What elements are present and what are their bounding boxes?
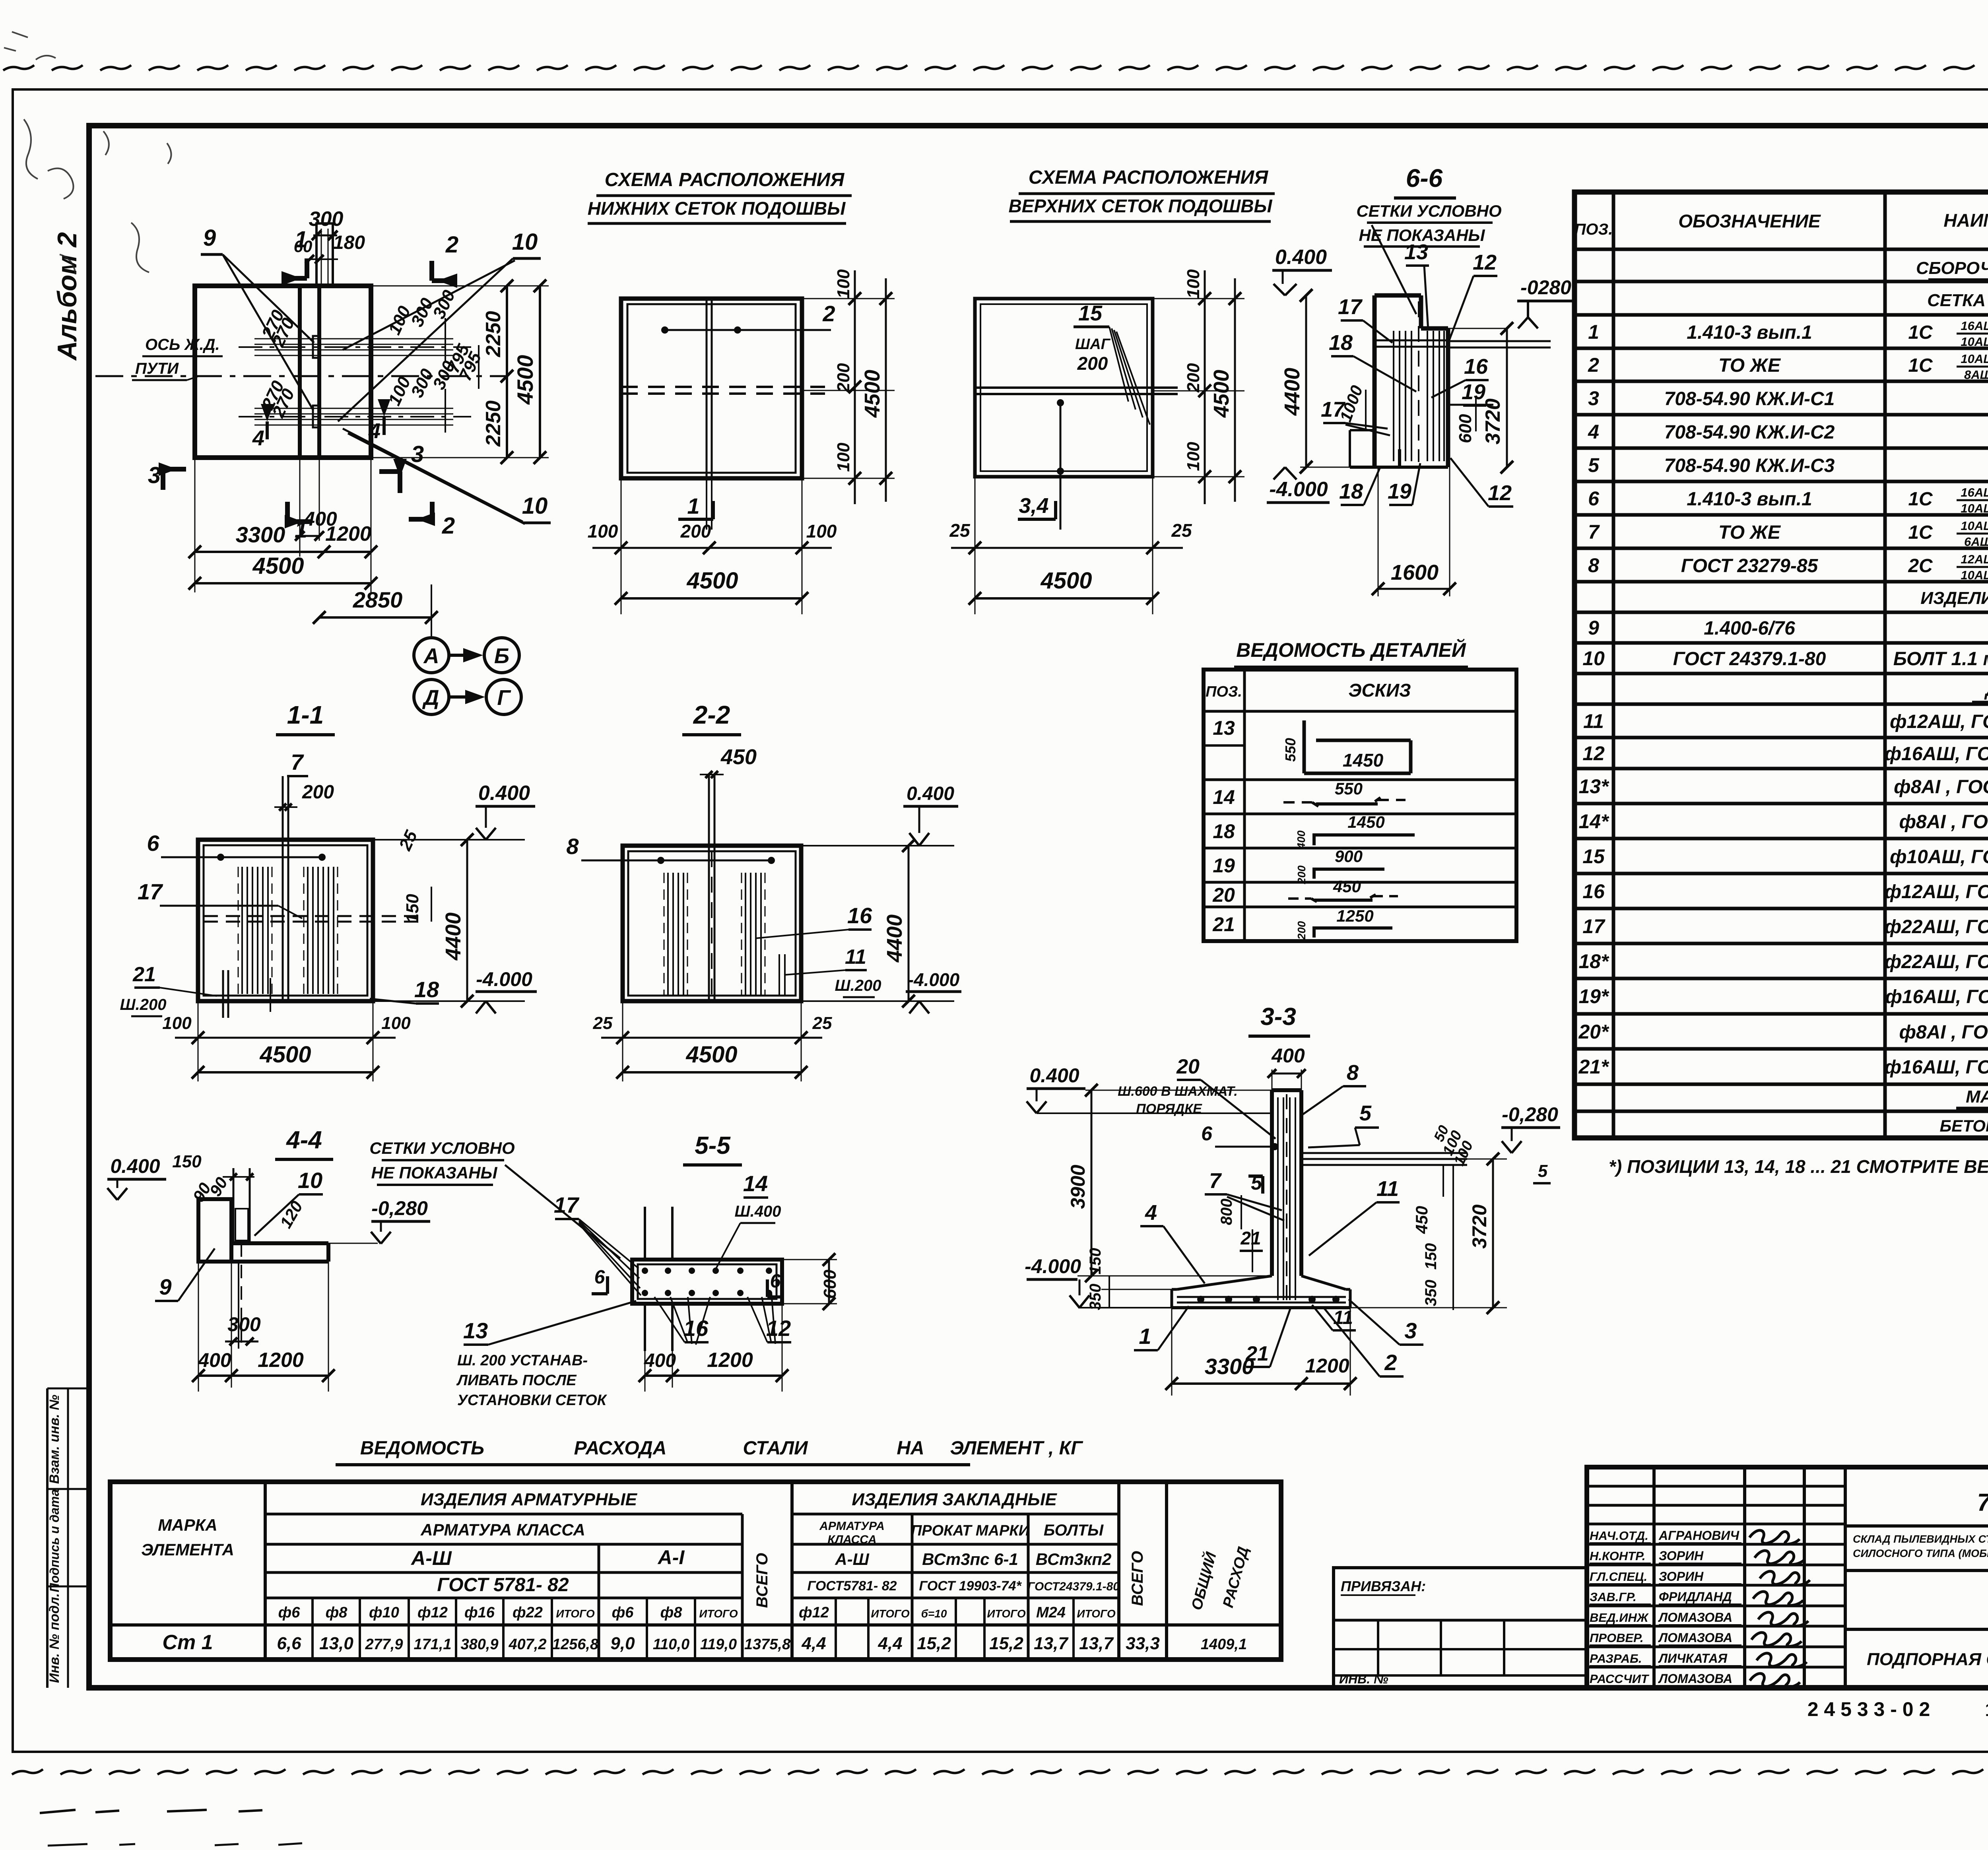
svg-text:ЗОРИН: ЗОРИН <box>1659 1549 1704 1563</box>
svg-text:13,0: 13,0 <box>319 1634 353 1653</box>
svg-text:1: 1 <box>687 493 699 518</box>
svg-text:180: 180 <box>333 232 365 253</box>
svg-text:1С: 1С <box>1908 522 1933 543</box>
scheme1: title <box>588 169 852 223</box>
svg-text:-4.000: -4.000 <box>1269 478 1328 501</box>
svg-text:ф10: ф10 <box>369 1604 399 1621</box>
svg-text:7: 7 <box>1209 1169 1222 1193</box>
svg-text:15,2: 15,2 <box>989 1634 1023 1653</box>
sec33: dim 400 top <box>1268 1044 1306 1090</box>
svg-text:200: 200 <box>302 782 334 803</box>
svg-text:150: 150 <box>1422 1243 1440 1270</box>
svg-text:ф22АШ, ГОСТ 5781-82, l=1850: ф22АШ, ГОСТ 5781-82, l=1850 <box>1885 951 1988 973</box>
svg-text:А-I: А-I <box>657 1546 685 1569</box>
title block: names <box>1867 1634 1988 1679</box>
details table: sketch 13 <box>1213 717 1411 773</box>
sec44: rebar band <box>233 1168 250 1349</box>
plan: dim 4500 <box>188 553 377 590</box>
svg-text:СЕТКИ УСЛОВНО: СЕТКИ УСЛОВНО <box>1356 202 1501 220</box>
svg-text:ф8АI , ГОСТ 5781-82, l=4150: ф8АI , ГОСТ 5781-82, l=4150 <box>1894 776 1988 798</box>
svg-text:ф8: ф8 <box>326 1604 348 1621</box>
scheme2: label 3,4 <box>1018 494 1056 519</box>
svg-text:НА: НА <box>897 1438 924 1459</box>
svg-text:17: 17 <box>554 1192 580 1217</box>
svg-text:100: 100 <box>162 1013 192 1033</box>
details table: title <box>1234 639 1468 667</box>
svg-text:150: 150 <box>172 1152 202 1171</box>
svg-text:2-2: 2-2 <box>693 701 730 729</box>
svg-text:8: 8 <box>566 834 579 859</box>
svg-text:2250: 2250 <box>482 311 505 357</box>
svg-text:6: 6 <box>147 831 159 856</box>
scheme2: right dims <box>1153 269 1244 504</box>
sec11: bottom dowels <box>223 970 270 1018</box>
svg-text:СЕТКА АРМАТУРНАЯ: СЕТКА АРМАТУРНАЯ <box>1927 291 1988 310</box>
sec44: bottom dims <box>192 1262 335 1392</box>
sec66: wall outline <box>1350 295 1448 467</box>
sec11: rebar clusters <box>238 867 338 994</box>
svg-text:4400: 4400 <box>441 912 465 961</box>
sec22: outline <box>623 846 801 1001</box>
svg-text:20*: 20* <box>1578 1021 1609 1043</box>
svg-text:150: 150 <box>403 894 422 923</box>
sec55: rebar dots <box>642 1268 772 1296</box>
svg-text:ИТОГО: ИТОГО <box>699 1607 738 1620</box>
svg-text:СЕТКИ УСЛОВНО: СЕТКИ УСЛОВНО <box>369 1139 514 1157</box>
plan: section mark 2 (top) <box>432 232 458 288</box>
svg-text:ф8: ф8 <box>660 1604 683 1621</box>
svg-text:4500: 4500 <box>860 370 884 418</box>
svg-text:ЛОМАЗОВА: ЛОМАЗОВА <box>1658 1631 1732 1645</box>
svg-text:4: 4 <box>252 426 264 450</box>
svg-text:16: 16 <box>847 903 872 928</box>
svg-text:11: 11 <box>845 945 866 969</box>
svg-text:16АШ: 16АШ <box>1961 319 1988 333</box>
svg-text:2: 2 <box>1588 354 1599 376</box>
sec44: wall outline <box>198 1199 328 1262</box>
plan: dims 300/60/180 <box>294 208 365 264</box>
svg-text:РАССЧИТ: РАССЧИТ <box>1590 1672 1650 1686</box>
svg-text:5: 5 <box>1359 1101 1372 1125</box>
svg-text:10: 10 <box>512 229 538 255</box>
sec44: elev 0.400 <box>107 1155 166 1200</box>
svg-text:200: 200 <box>680 521 711 542</box>
svg-text:13,7: 13,7 <box>1079 1634 1114 1653</box>
svg-text:25: 25 <box>949 520 971 541</box>
svg-text:4500: 4500 <box>685 1042 737 1068</box>
svg-text:18*: 18* <box>1578 950 1609 973</box>
svg-text:450: 450 <box>1333 877 1361 896</box>
details table: sketch 20 <box>1212 877 1398 906</box>
svg-text:15: 15 <box>1078 301 1103 325</box>
svg-text:800: 800 <box>1218 1199 1235 1225</box>
svg-text:ВЕДОМОСТЬ ДЕТАЛЕЙ: ВЕДОМОСТЬ ДЕТАЛЕЙ <box>1236 639 1466 661</box>
svg-text:8АШ: 8АШ <box>1964 368 1988 382</box>
sec33: label 20 <box>1118 1055 1276 1139</box>
svg-text:2: 2 <box>442 513 455 539</box>
sec44: title <box>275 1126 333 1159</box>
svg-text:16: 16 <box>683 1316 709 1341</box>
svg-text:10АШ: 10АШ <box>1961 352 1988 366</box>
sec33: title <box>1248 1003 1310 1036</box>
svg-text:ф12: ф12 <box>799 1604 829 1621</box>
top wavy dashed border <box>3 65 1988 70</box>
svg-text:РАСХОДА: РАСХОДА <box>574 1438 667 1459</box>
svg-text:18: 18 <box>1213 820 1235 842</box>
svg-text:А-Ш: А-Ш <box>835 1550 869 1569</box>
svg-text:А-Ш: А-Ш <box>410 1547 452 1569</box>
details table: sketch 21 <box>1212 907 1392 940</box>
svg-text:407,2: 407,2 <box>508 1636 546 1653</box>
svg-text:Ш.200: Ш.200 <box>835 977 881 994</box>
svg-text:21: 21 <box>132 963 156 986</box>
svg-text:200: 200 <box>1184 363 1203 393</box>
svg-text:0.400: 0.400 <box>1029 1064 1079 1087</box>
scheme1: center vertical band <box>707 299 712 530</box>
svg-text:12АШ: 12АШ <box>1961 552 1988 566</box>
svg-text:4,4: 4,4 <box>878 1634 902 1653</box>
svg-text:Ш.600 В ШАХМАТ.: Ш.600 В ШАХМАТ. <box>1118 1084 1238 1099</box>
plan: 270 dim labels <box>258 307 299 421</box>
sec55: labels top <box>554 1171 784 1297</box>
svg-text:ЭЛЕМЕНТ , КГ: ЭЛЕМЕНТ , КГ <box>950 1438 1083 1459</box>
svg-text:-0280: -0280 <box>1520 276 1571 299</box>
plan: right dims 2250/4500 <box>371 280 549 464</box>
svg-text:9: 9 <box>159 1274 171 1299</box>
svg-text:110,0: 110,0 <box>653 1636 689 1653</box>
sec44: labels <box>155 1152 430 1301</box>
svg-text:ИТОГО: ИТОГО <box>556 1607 594 1620</box>
sec33: wall T outline <box>1172 1090 1350 1308</box>
scheme1: leader 2 <box>661 301 835 334</box>
svg-text:ф16АШ, ГОСТ 5781-82, l=3350: ф16АШ, ГОСТ 5781-82, l=3350 <box>1885 743 1988 765</box>
svg-text:10АШ: 10АШ <box>1961 568 1988 582</box>
svg-text:ЗОРИН: ЗОРИН <box>1659 1569 1704 1584</box>
svg-text:1С: 1С <box>1908 489 1933 510</box>
svg-text:2С: 2С <box>1908 555 1933 577</box>
svg-text:0.400: 0.400 <box>1275 246 1327 269</box>
sec33: floor slab lines right <box>1301 1153 1467 1165</box>
svg-text:1409,1: 1409,1 <box>1201 1636 1247 1653</box>
svg-text:ф22АШ, ГОСТ 5781-82, l=3200: ф22АШ, ГОСТ 5781-82, l=3200 <box>1885 916 1988 938</box>
svg-text:6АШ: 6АШ <box>1964 535 1988 549</box>
svg-text:100: 100 <box>381 1013 411 1033</box>
sec33: elev -0.280 <box>1501 1103 1560 1153</box>
svg-text:1450: 1450 <box>1343 750 1384 771</box>
svg-text:6: 6 <box>1588 487 1600 510</box>
plan: dims 3300/1200 <box>188 458 377 592</box>
sec55: beam outline <box>632 1207 782 1351</box>
svg-text:Д: Д <box>422 686 439 710</box>
svg-text:1600: 1600 <box>1391 561 1439 584</box>
svg-text:ШАГ: ШАГ <box>1075 336 1111 353</box>
svg-text:1-1: 1-1 <box>287 701 324 729</box>
svg-text:16АШ: 16АШ <box>1961 485 1988 499</box>
sec22: title <box>682 701 741 735</box>
svg-text:10: 10 <box>1582 647 1605 670</box>
title block: signatures <box>1590 1528 1810 1687</box>
svg-text:*) ПОЗИЦИИ 13, 14, 18 ... 21: *) ПОЗИЦИИ 13, 14, 18 ... 21 СМОТРИТЕ ВЕ… <box>1609 1156 1988 1177</box>
svg-text:10: 10 <box>522 493 548 519</box>
svg-text:2: 2 <box>1384 1350 1397 1375</box>
svg-text:25: 25 <box>593 1013 613 1033</box>
svg-text:3900: 3900 <box>1067 1165 1089 1209</box>
svg-text:900: 900 <box>1335 847 1363 866</box>
svg-text:4500: 4500 <box>1209 370 1233 418</box>
svg-text:М24: М24 <box>1036 1604 1066 1621</box>
svg-text:ИТОГО: ИТОГО <box>1077 1607 1115 1620</box>
svg-text:19: 19 <box>1213 854 1235 877</box>
title block: object name <box>1845 1532 1988 1571</box>
svg-text:СХЕМА РАСПОЛОЖЕНИЯ: СХЕМА РАСПОЛОЖЕНИЯ <box>605 169 845 190</box>
svg-text:18: 18 <box>1329 331 1353 355</box>
plan: upper embedded plate M2-30 with mesh band <box>239 336 471 358</box>
svg-text:АРМАТУРА: АРМАТУРА <box>819 1520 885 1533</box>
svg-text:СБОРОЧНЫЕ ЕДИНИЦЫ: СБОРОЧНЫЕ ЕДИНИЦЫ <box>1916 258 1988 278</box>
svg-text:13,7: 13,7 <box>1034 1634 1069 1653</box>
svg-text:2 4 5 3 3 - 0 2: 2 4 5 3 3 - 0 2 <box>1807 1698 1930 1720</box>
svg-text:Н.КОНТР.: Н.КОНТР. <box>1590 1549 1646 1563</box>
svg-text:11: 11 <box>1583 710 1604 732</box>
title block: doc number <box>1845 1489 1988 1526</box>
svg-text:16: 16 <box>1582 880 1605 903</box>
left margin stamp boxes <box>47 1388 89 1688</box>
title block: stage/sheet <box>1845 1570 1988 1688</box>
svg-text:6,6: 6,6 <box>277 1634 301 1653</box>
svg-text:-4.000: -4.000 <box>908 969 960 990</box>
svg-text:5-5: 5-5 <box>695 1132 731 1159</box>
details table: sketch 19 <box>1213 847 1384 884</box>
sec66: title <box>1356 164 1501 314</box>
details table: sketch 18 <box>1213 813 1415 849</box>
svg-text:ЛОМАЗОВА: ЛОМАЗОВА <box>1658 1671 1732 1686</box>
svg-text:380,9: 380,9 <box>460 1636 498 1653</box>
album label <box>52 232 82 361</box>
spec table: rows 9-10 <box>1582 588 1988 670</box>
svg-text:100: 100 <box>1184 442 1203 471</box>
svg-text:ф12АШ, ГОСТ 5781-82, l=800: ф12АШ, ГОСТ 5781-82, l=800 <box>1890 711 1988 732</box>
sec22: right dims <box>801 783 961 1013</box>
svg-text:ЭЛЕМЕНТА: ЭЛЕМЕНТА <box>141 1540 234 1559</box>
svg-text:10АШ: 10АШ <box>1961 519 1988 533</box>
svg-text:1200: 1200 <box>707 1349 753 1372</box>
svg-text:2850: 2850 <box>353 587 403 612</box>
sec66: elev -0280 <box>1517 276 1575 328</box>
svg-text:4,4: 4,4 <box>801 1634 826 1653</box>
svg-text:АГРАНОВИЧ: АГРАНОВИЧ <box>1658 1528 1739 1543</box>
scan noise top-left <box>4 32 171 274</box>
svg-text:18: 18 <box>414 977 439 1002</box>
svg-text:2250: 2250 <box>482 400 505 447</box>
plan: axis circles А-Б Д-Г <box>414 593 521 714</box>
svg-text:-0,280: -0,280 <box>1502 1103 1558 1126</box>
svg-text:1256,8: 1256,8 <box>552 1636 599 1653</box>
svg-text:12: 12 <box>1582 742 1605 765</box>
svg-text:Ст 1: Ст 1 <box>162 1631 213 1654</box>
svg-text:300: 300 <box>309 208 344 231</box>
svg-text:9: 9 <box>203 225 216 251</box>
svg-text:ф12АШ, ГОСТ 5781-82, l=3680: ф12АШ, ГОСТ 5781-82, l=3680 <box>1885 881 1988 903</box>
sec11: center bars and dim 200 <box>274 749 334 1001</box>
svg-text:3300: 3300 <box>236 522 285 547</box>
svg-text:16: 16 <box>1464 355 1488 379</box>
svg-text:ЛОМАЗОВА: ЛОМАЗОВА <box>1658 1610 1732 1625</box>
plan: railway axis line with label <box>95 336 507 380</box>
svg-text:15: 15 <box>1985 1699 1988 1720</box>
plan: section marks 4 <box>252 399 390 450</box>
svg-text:6: 6 <box>770 1271 781 1292</box>
svg-text:ВЕРХНИХ СЕТОК ПОДОШВЫ: ВЕРХНИХ СЕТОК ПОДОШВЫ <box>1008 196 1272 216</box>
svg-text:ПОЗ.: ПОЗ. <box>1574 221 1613 238</box>
svg-text:ПОРЯДКЕ: ПОРЯДКЕ <box>1136 1101 1202 1116</box>
sec55: dims <box>639 1253 840 1392</box>
sec33: bottom dims <box>1165 1276 1357 1396</box>
details table: sketch 14 <box>1213 779 1406 808</box>
svg-text:Г: Г <box>497 686 511 710</box>
svg-text:СКЛАД ПЫЛЕВИДНЫХ СТРОИТЕЛЬНЫХ: СКЛАД ПЫЛЕВИДНЫХ СТРОИТЕЛЬНЫХ МАТЕРИАЛОВ… <box>1853 1532 1988 1545</box>
steel table: title <box>336 1438 1083 1465</box>
svg-text:1.400-6/76: 1.400-6/76 <box>1704 618 1795 639</box>
svg-text:11: 11 <box>1376 1177 1399 1201</box>
svg-text:1375,8: 1375,8 <box>744 1636 791 1653</box>
svg-text:ф8АI , ГОСТ 5781-82, l=650: ф8АI , ГОСТ 5781-82, l=650 <box>1899 811 1988 833</box>
bottom wavy dashed border <box>12 1769 1988 1774</box>
sec33: right dims <box>1350 1123 1507 1314</box>
svg-text:1.410-3 вып.1: 1.410-3 вып.1 <box>1687 489 1812 510</box>
spec table: rows 11-21 <box>1578 679 1988 1078</box>
svg-text:ГОСТ5781- 82: ГОСТ5781- 82 <box>807 1578 897 1594</box>
sec33: stem rebar <box>1278 1094 1295 1305</box>
svg-text:20: 20 <box>1212 884 1235 906</box>
svg-text:ИНВ. №: ИНВ. № <box>1339 1672 1388 1686</box>
sec33: elev 0.400 <box>1027 1064 1272 1113</box>
svg-text:15: 15 <box>1582 845 1605 868</box>
plan: label 10 (bottom) with leaders <box>343 358 551 524</box>
svg-text:ИТОГО: ИТОГО <box>987 1607 1025 1620</box>
sec66: bottom labels <box>1339 458 1513 507</box>
svg-text:ф6: ф6 <box>278 1604 301 1621</box>
svg-text:ф16АШ, ГОСТ 5781-82, l=1450: ф16АШ, ГОСТ 5781-82, l=1450 <box>1885 1057 1988 1078</box>
svg-text:ф8АI , ГОСТ 5781-82, l=550: ф8АI , ГОСТ 5781-82, l=550 <box>1899 1022 1988 1043</box>
svg-text:4400: 4400 <box>883 914 907 963</box>
svg-text:Ш. 200 УСТАНАВ-: Ш. 200 УСТАНАВ- <box>457 1352 588 1369</box>
svg-text:600: 600 <box>1456 414 1475 443</box>
svg-text:13: 13 <box>1404 240 1428 264</box>
svg-text:-4.000: -4.000 <box>1025 1255 1081 1277</box>
svg-text:17: 17 <box>138 879 163 904</box>
svg-text:ЛИЧКАТАЯ: ЛИЧКАТАЯ <box>1658 1651 1728 1666</box>
svg-text:4: 4 <box>1588 421 1599 443</box>
svg-text:100: 100 <box>834 269 853 299</box>
svg-text:17: 17 <box>1338 295 1363 319</box>
svg-text:3: 3 <box>1404 1318 1417 1343</box>
svg-text:100: 100 <box>1184 269 1203 299</box>
svg-text:4400: 4400 <box>1280 368 1304 416</box>
svg-text:ПУТИ: ПУТИ <box>135 360 179 377</box>
sec11: right dims <box>373 782 537 1013</box>
title block: privyazan box <box>1334 1568 1587 1688</box>
svg-text:300: 300 <box>227 1313 261 1336</box>
svg-text:ГОСТ 5781- 82: ГОСТ 5781- 82 <box>437 1574 569 1596</box>
svg-text:Альбом 2: Альбом 2 <box>52 232 82 361</box>
svg-text:14*: 14* <box>1578 810 1609 833</box>
svg-text:Б: Б <box>494 644 509 668</box>
svg-text:14: 14 <box>743 1171 768 1196</box>
svg-text:ф12: ф12 <box>417 1604 448 1621</box>
steel table: headers <box>141 1490 1120 1596</box>
svg-text:0.400: 0.400 <box>907 783 954 804</box>
svg-text:БЕТОН КЛАССА В15: БЕТОН КЛАССА В15 <box>1939 1116 1988 1135</box>
sec55: titles <box>369 1132 742 1258</box>
svg-text:ЭСКИЗ: ЭСКИЗ <box>1348 680 1411 701</box>
svg-text:Подпись и дата: Подпись и дата <box>47 1489 62 1592</box>
svg-text:10: 10 <box>298 1168 322 1193</box>
sec22: bottom dims <box>593 1001 832 1081</box>
svg-text:3300: 3300 <box>1205 1354 1254 1379</box>
svg-text:400: 400 <box>198 1349 231 1371</box>
svg-text:Инв. № подл.: Инв. № подл. <box>47 1593 62 1683</box>
svg-text:БОЛТ 1.1 м24х800 ВСт3кп2: БОЛТ 1.1 м24х800 ВСт3кп2 <box>1893 648 1988 670</box>
plan: dim 400 <box>295 458 337 557</box>
spec table: rows 1-8 <box>1588 319 1988 582</box>
sec22: center bars and dim 450 <box>700 745 757 1001</box>
svg-text:4: 4 <box>368 419 381 443</box>
spec table: footnote <box>1609 1156 1988 1177</box>
svg-text:400: 400 <box>644 1350 676 1371</box>
svg-text:21*: 21* <box>1578 1056 1609 1078</box>
svg-text:4500: 4500 <box>513 355 538 405</box>
svg-text:ЛИВАТЬ ПОСЛЕ: ЛИВАТЬ ПОСЛЕ <box>456 1372 577 1389</box>
svg-text:4500: 4500 <box>1040 568 1092 594</box>
svg-text:ПРОВЕР.: ПРОВЕР. <box>1590 1631 1644 1645</box>
sec33: left dims 3900 <box>1067 1084 1272 1310</box>
svg-text:18: 18 <box>1339 479 1363 503</box>
svg-text:14: 14 <box>1213 786 1235 808</box>
svg-text:200: 200 <box>1077 353 1108 374</box>
svg-text:ВСт3пс 6-1: ВСт3пс 6-1 <box>922 1550 1018 1569</box>
svg-text:ВЕД.ИНЖ: ВЕД.ИНЖ <box>1590 1611 1649 1625</box>
scheme1: label 1 <box>678 493 713 519</box>
svg-text:ГОСТ 19903-74*: ГОСТ 19903-74* <box>919 1578 1022 1594</box>
title block: inventory number <box>1807 1698 1988 1720</box>
svg-text:ГОСТ 24379.1-80: ГОСТ 24379.1-80 <box>1673 648 1826 670</box>
sec33: elev -4.000 <box>1025 1255 1172 1308</box>
plan: label 10 (top) with leaders <box>338 229 541 421</box>
sec66: dim 1600 <box>1372 467 1456 596</box>
svg-text:ф10АШ, ГОСТ 5781-82, l=500: ф10АШ, ГОСТ 5781-82, l=500 <box>1890 846 1988 868</box>
plan: dim 2850 <box>313 584 438 636</box>
svg-text:1.410-3 вып.1: 1.410-3 вып.1 <box>1687 322 1812 343</box>
svg-text:-4.000: -4.000 <box>476 968 532 990</box>
scheme1: mesh square <box>621 299 802 478</box>
svg-text:РАЗРАБ.: РАЗРАБ. <box>1590 1652 1642 1666</box>
sec55: labels bottom <box>456 1292 791 1409</box>
svg-text:ф16: ф16 <box>464 1604 495 1621</box>
svg-text:4500: 4500 <box>259 1042 311 1068</box>
sec33: labels 6 7 4 21 11 <box>1140 1122 1400 1283</box>
svg-text:8: 8 <box>1347 1061 1359 1085</box>
svg-text:400: 400 <box>1271 1044 1305 1067</box>
svg-text:ПОЗ.: ПОЗ. <box>1206 683 1242 700</box>
svg-text:708 - 57. 90: 708 - 57. 90 <box>1977 1489 1988 1516</box>
svg-text:ф16АШ, ГОСТ 5781-82, l=1100: ф16АШ, ГОСТ 5781-82, l=1100 <box>1885 986 1988 1008</box>
svg-text:13*: 13* <box>1578 775 1609 798</box>
sec22: rebar clusters <box>664 873 785 996</box>
svg-text:150: 150 <box>1087 1248 1104 1275</box>
svg-text:25: 25 <box>812 1013 832 1033</box>
svg-text:НЕ ПОКАЗАНЫ: НЕ ПОКАЗАНЫ <box>371 1163 497 1182</box>
svg-text:17: 17 <box>1582 915 1606 938</box>
